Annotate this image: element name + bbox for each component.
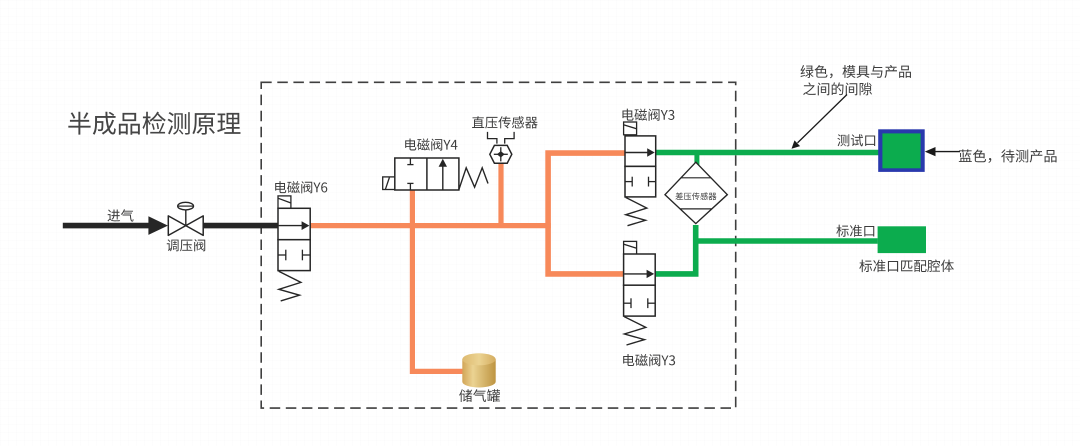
pressure sensor symbol <box>488 132 515 163</box>
wire orange split to Y3 valves <box>548 153 625 274</box>
wire orange Y4/tank vertical <box>412 190 462 371</box>
test port square (blue border, green fill) <box>878 129 925 172</box>
annotation arrow 绿色 <box>792 95 848 149</box>
dashed enclosure box <box>261 82 736 408</box>
differential pressure sensor diamond <box>665 162 727 223</box>
label 蓝色，待测产品 <box>959 149 1057 162</box>
label 之间的间隙 <box>803 82 872 95</box>
wire green test branch <box>656 150 880 156</box>
regulator valve 调压阀 <box>168 202 203 235</box>
solenoid valve Y3 bottom <box>624 241 656 345</box>
wire orange trunk <box>310 223 551 228</box>
annotation arrow 蓝色 <box>925 147 960 156</box>
title 半成品检测原理 <box>68 112 240 135</box>
label 调压阀 <box>167 239 205 251</box>
intake line 进气 <box>63 216 279 235</box>
label 电磁阀Y3 bottom <box>623 354 675 366</box>
label 电磁阀Y4 <box>405 138 457 150</box>
wire green from bottom valve up to sensor <box>655 225 696 274</box>
solenoid valve Y6 <box>278 196 310 301</box>
label 电磁阀Y3 top <box>622 109 674 121</box>
label 标准口 <box>836 225 874 237</box>
label 进气 <box>108 209 134 221</box>
standard port rect <box>878 226 926 253</box>
wire orange sensor drop <box>498 162 503 226</box>
label 差压传感器 <box>675 192 716 200</box>
label 绿色，模具与产品 <box>800 65 910 78</box>
air tank 储气罐 <box>462 353 495 387</box>
solenoid valve Y3 top <box>624 122 656 226</box>
solenoid valve Y4 <box>383 158 488 190</box>
label 测试口 <box>837 134 875 146</box>
label 标准口匹配腔体 <box>859 260 954 273</box>
label 电磁阀Y6 <box>275 181 327 193</box>
wire green standard branch <box>696 238 878 244</box>
wire green sensor top drop <box>694 153 699 167</box>
label 直压传感器 <box>472 116 538 128</box>
label 储气罐 <box>459 389 500 402</box>
